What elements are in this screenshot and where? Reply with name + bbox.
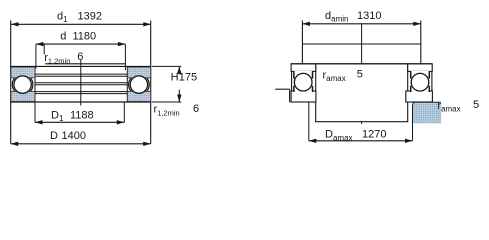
- washer outer edge right (between plates): [431, 71, 433, 91]
- groove shoulder lines left top: [293, 71, 295, 78]
- H extension line top: [152, 65, 181, 67]
- svg-text:1310: 1310: [357, 10, 381, 22]
- dimension line d_amin 1310: [302, 22, 420, 26]
- housing washer plate left: [291, 91, 316, 102]
- shaft washer section hatched left: [11, 67, 35, 78]
- svg-text:1180: 1180: [73, 30, 97, 42]
- extension/outer edge line right: [150, 21, 152, 144]
- svg-text:r1,2min: r1,2min: [154, 104, 180, 118]
- washer outer edge left (between plates): [291, 71, 293, 91]
- groove circle right: [129, 74, 150, 95]
- shaft washer plate left: [291, 64, 316, 72]
- housing wall bore edge left: [289, 89, 291, 102]
- dimension line D 1400: [11, 142, 151, 146]
- top face line: [10, 65, 151, 67]
- housing shoulder block gray: [413, 102, 442, 123]
- svg-text:6: 6: [193, 103, 199, 115]
- dimension line D_amax 1270: [309, 139, 413, 143]
- shaft washer section hatched right: [127, 67, 150, 78]
- extension line d left: [35, 44, 37, 68]
- ball left: [14, 76, 31, 93]
- svg-text:damin: damin: [325, 10, 348, 24]
- groove shoulder lines left bottom: [293, 86, 295, 92]
- svg-text:H: H: [171, 71, 179, 83]
- groove shoulder lines right top: [410, 71, 412, 78]
- leader riser for r1,2min: [43, 44, 45, 54]
- svg-text:d: d: [60, 30, 66, 42]
- center line: [80, 60, 82, 106]
- svg-text:Damax: Damax: [325, 129, 353, 143]
- shaft shoulder side left: [301, 21, 303, 64]
- svg-text:5: 5: [357, 69, 363, 81]
- D_amax extension right: [412, 105, 414, 141]
- H dimension arrow up: [177, 66, 181, 74]
- D1 extension right: [123, 102, 125, 122]
- bore edge right: [126, 66, 128, 102]
- leader line under r1,2min: [45, 63, 125, 65]
- bottom face line: [10, 101, 151, 103]
- center line: [361, 24, 363, 124]
- extension/outer edge line left: [10, 21, 12, 144]
- svg-text:ramax: ramax: [437, 100, 460, 114]
- ball right: [411, 73, 429, 91]
- H extension line bottom: [152, 101, 181, 103]
- extension line d right: [124, 44, 126, 70]
- bore edge / D1 extension left: [34, 66, 36, 122]
- shaft washer plate right: [408, 64, 433, 72]
- dimension line d 1180: [36, 42, 126, 46]
- shaft broken end line: [302, 43, 420, 45]
- D_amax extension left: [308, 102, 310, 141]
- ball left: [294, 73, 312, 91]
- groove circle left: [12, 74, 33, 95]
- housing wall top face left: [275, 88, 289, 90]
- housing washer section hatched right: [127, 91, 150, 101]
- groove shoulder lines right bottom: [410, 86, 412, 92]
- dimension line D1 1188: [35, 120, 124, 124]
- dimension line d1 1392: [11, 22, 151, 26]
- H dimension arrow down: [177, 90, 181, 102]
- svg-text:5: 5: [473, 99, 479, 111]
- groove cutout right bottom: [411, 90, 429, 92]
- groove cutout left top: [294, 71, 312, 73]
- shaft block in bore: [316, 64, 408, 122]
- svg-text:1392: 1392: [78, 11, 102, 23]
- top face line: [291, 63, 432, 65]
- housing washer plate right: [406, 91, 433, 102]
- svg-text:1188: 1188: [70, 110, 94, 122]
- svg-text:D: D: [50, 130, 58, 142]
- ball right: [130, 76, 147, 93]
- svg-text:175: 175: [179, 71, 197, 83]
- groove cutout left bottom: [294, 90, 312, 92]
- svg-text:1400: 1400: [62, 130, 86, 142]
- bore see-through lines: [35, 74, 127, 94]
- groove cutout right top: [411, 71, 429, 73]
- svg-text:D1: D1: [51, 110, 64, 124]
- housing washer section hatched left: [11, 91, 35, 101]
- svg-text:d1: d1: [57, 11, 68, 25]
- shaft shoulder side right: [420, 21, 422, 64]
- svg-text:1270: 1270: [362, 129, 386, 141]
